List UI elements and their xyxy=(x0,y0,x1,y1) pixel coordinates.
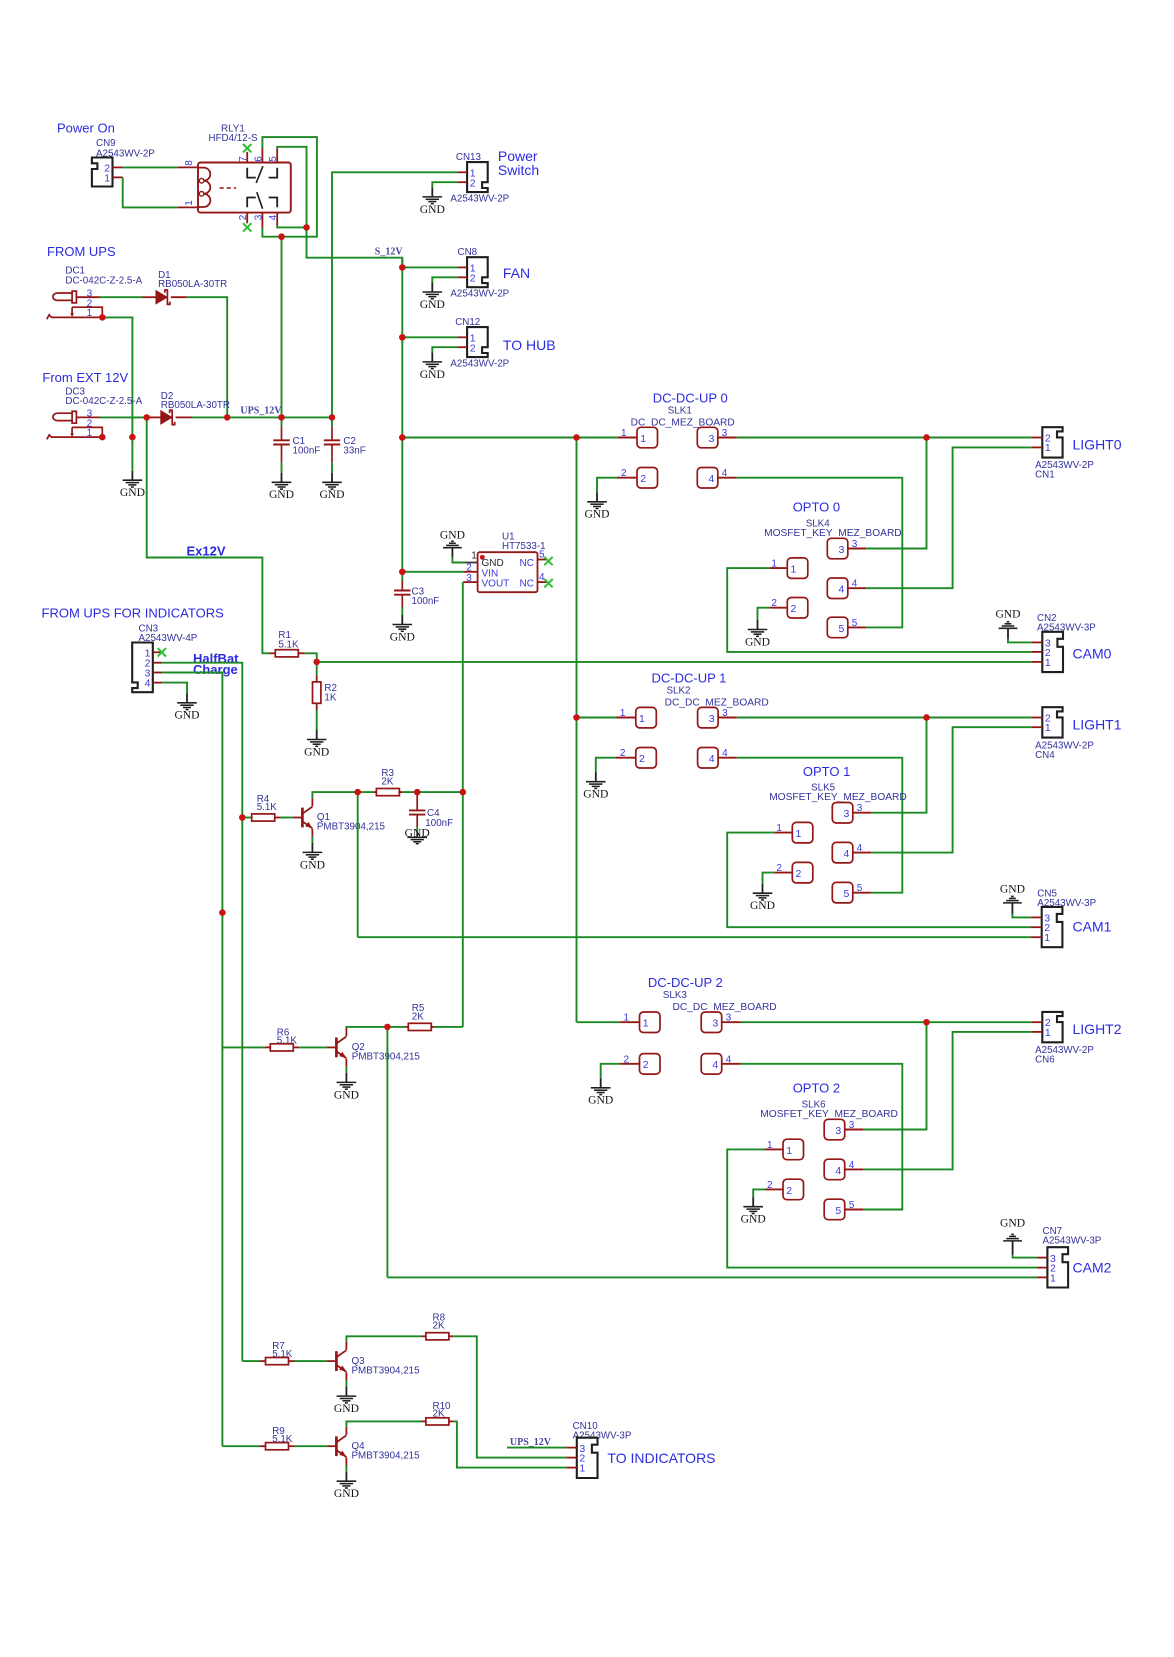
pin CN3.3 xyxy=(153,672,162,674)
svg-text:5: 5 xyxy=(268,156,279,162)
svg-text:5: 5 xyxy=(852,618,858,629)
pin DC3.3 xyxy=(76,416,99,418)
pad SLK2.4 xyxy=(698,748,719,769)
wire OPTO1.3 up xyxy=(871,718,926,813)
svg-text:UPS_12V: UPS_12V xyxy=(510,1437,552,1448)
wire SLK2.4 to OPTO1.5 xyxy=(737,758,902,893)
svg-text:DC_DC_MEZ_BOARD: DC_DC_MEZ_BOARD xyxy=(665,697,769,708)
svg-text:CAM2: CAM2 xyxy=(1073,1260,1112,1276)
svg-text:NC: NC xyxy=(520,558,534,569)
svg-text:1: 1 xyxy=(640,433,646,445)
pin U1.1 xyxy=(465,562,478,564)
transistor Q4 xyxy=(327,1445,336,1447)
svg-text:1: 1 xyxy=(1044,932,1050,944)
svg-text:FROM UPS: FROM UPS xyxy=(47,244,116,259)
wire RLY1.5 loop to RLY1.4 xyxy=(277,147,402,268)
ground CN3 xyxy=(177,693,197,709)
wire R9 to Q4 base xyxy=(295,1445,327,1447)
svg-text:GND: GND xyxy=(584,508,609,521)
wire CN8.2 to GND xyxy=(432,277,457,282)
wire rail down to blocks 1+2 xyxy=(576,438,578,1023)
junction rail block1 xyxy=(573,714,579,720)
svg-text:GND: GND xyxy=(269,488,294,501)
junction rail split down xyxy=(573,434,579,440)
ground Q1 xyxy=(303,843,323,859)
wire CN12.2 to GND xyxy=(432,347,457,352)
svg-text:6: 6 xyxy=(253,156,264,162)
resistor R10 xyxy=(422,1420,426,1422)
wire CN9.2 to RLY1.8 xyxy=(123,166,178,168)
wire rail to SLK1.1 xyxy=(577,437,619,439)
svg-text:2: 2 xyxy=(470,273,476,285)
svg-text:CN4: CN4 xyxy=(1035,750,1055,761)
svg-text:1: 1 xyxy=(471,550,477,561)
svg-text:5: 5 xyxy=(849,1200,855,1211)
svg-text:A2543WV-2P: A2543WV-2P xyxy=(450,289,509,300)
relay pin 2 xyxy=(246,213,248,224)
resistor R1 xyxy=(269,652,275,654)
junction R4 tap xyxy=(239,814,245,820)
wire OPTO0.1 to CAM0.2 xyxy=(727,568,1032,652)
wire OPTO0.2 to GND xyxy=(758,608,770,620)
wire Q3 emitter down xyxy=(345,1380,347,1386)
connector CN13 xyxy=(467,162,488,192)
pad OPTO0.4 xyxy=(827,578,848,599)
svg-text:2: 2 xyxy=(620,748,626,759)
svg-text:4: 4 xyxy=(722,748,728,759)
svg-text:FROM UPS FOR INDICATORS: FROM UPS FOR INDICATORS xyxy=(42,606,225,621)
svg-text:4: 4 xyxy=(722,468,728,479)
svg-text:OPTO 1: OPTO 1 xyxy=(803,764,850,779)
wire R1 to R2 node xyxy=(305,653,317,675)
svg-text:1: 1 xyxy=(104,172,110,184)
ground SLK1.2 xyxy=(587,492,607,508)
wire OPTO2.1 to CAM2.2 xyxy=(727,1149,1037,1267)
svg-text:1: 1 xyxy=(1045,442,1051,454)
svg-text:1: 1 xyxy=(1045,657,1051,669)
junction LIGHT1 node xyxy=(923,714,929,720)
ground Q4 xyxy=(337,1472,357,1488)
capacitor C2 xyxy=(331,417,333,426)
wire OPTO0.4 to LIGHT0.1 xyxy=(866,447,1032,588)
connector CN9 xyxy=(92,158,113,187)
pad OPTO1.3 xyxy=(832,803,853,824)
wire D1 to UPS_12V xyxy=(187,297,228,417)
no-connect X CN3.1 xyxy=(158,648,166,656)
svg-text:GND: GND xyxy=(420,203,445,216)
svg-text:GND: GND xyxy=(174,709,199,722)
no-connect X pin7 xyxy=(243,144,251,152)
wire GND to CAM2.3 xyxy=(1013,1255,1037,1258)
svg-text:GND: GND xyxy=(588,1094,613,1107)
svg-text:2: 2 xyxy=(776,863,782,874)
junction Ex12V tap xyxy=(144,414,150,420)
svg-text:TO INDICATORS: TO INDICATORS xyxy=(607,1450,715,1466)
connector CAM1 xyxy=(1042,907,1063,947)
resistor R7 xyxy=(242,1360,259,1362)
svg-text:5: 5 xyxy=(844,888,850,900)
pin CN9.2 xyxy=(113,166,123,168)
svg-text:PMBT3904,215: PMBT3904,215 xyxy=(317,822,386,833)
ground C4 xyxy=(407,833,427,844)
wire CN3.2 HalfBat net xyxy=(162,663,242,1361)
junction DC1 pin1/pin2 xyxy=(99,314,105,320)
no-connect X U1.5 xyxy=(544,557,552,565)
pin CAM0.1 xyxy=(1032,661,1043,663)
wire CN9.1 to RLY1.1 xyxy=(123,177,178,207)
svg-text:2: 2 xyxy=(786,1185,792,1197)
wire contacts common to UPS_12V xyxy=(281,237,283,418)
junction VIN xyxy=(399,569,405,575)
pad SLK2.2 xyxy=(616,757,636,759)
pin CN3.1 xyxy=(153,651,162,653)
wire DC1.1 to GND rail xyxy=(102,317,132,470)
svg-text:5: 5 xyxy=(857,883,863,894)
svg-text:8: 8 xyxy=(184,160,195,166)
wire OPTO2.4 to LIGHT2.1 xyxy=(863,1032,1032,1170)
svg-text:GND: GND xyxy=(120,486,145,499)
pin CAM0.2 xyxy=(1032,651,1043,653)
connector CN8 xyxy=(467,257,488,287)
svg-text:CAM0: CAM0 xyxy=(1073,645,1112,661)
svg-text:100nF: 100nF xyxy=(412,596,440,607)
ground CN13 xyxy=(423,187,443,203)
wire S_12V rail xyxy=(401,258,403,572)
svg-text:GND: GND xyxy=(745,635,770,648)
resistor R6 xyxy=(222,1046,264,1048)
svg-text:CAM1: CAM1 xyxy=(1073,919,1112,935)
junction Q1 collector node xyxy=(355,789,361,795)
svg-text:TO HUB: TO HUB xyxy=(503,337,556,353)
diode D2 xyxy=(147,416,161,418)
svg-text:GND: GND xyxy=(334,1402,359,1415)
svg-text:2: 2 xyxy=(238,214,249,220)
svg-text:1: 1 xyxy=(1045,1027,1051,1039)
pin CN9.1 xyxy=(113,176,123,178)
svg-text:Ex12V: Ex12V xyxy=(187,543,226,558)
ground SLK2.2 xyxy=(586,772,606,788)
svg-text:LIGHT2: LIGHT2 xyxy=(1073,1021,1122,1037)
junction LIGHT2 node xyxy=(923,1019,929,1025)
pin LIGHT2.1 xyxy=(1032,1031,1043,1033)
svg-text:2: 2 xyxy=(640,473,646,485)
wire Q1 emitter down xyxy=(311,837,313,843)
svg-text:S_12V: S_12V xyxy=(375,247,404,258)
pad SLK1.2 xyxy=(617,477,637,479)
wire CN13.2 to GND xyxy=(432,182,457,187)
junction C1 xyxy=(278,414,284,420)
svg-text:4: 4 xyxy=(852,579,858,590)
svg-text:1: 1 xyxy=(786,1145,792,1157)
wire UPS_12V bus xyxy=(192,416,333,418)
ground DC jacks xyxy=(123,471,143,487)
junction C4 tap xyxy=(414,789,420,795)
wire Q1 node to CAM1 pin1 xyxy=(357,792,359,937)
wire node to CAM0 pin1 xyxy=(317,661,1032,663)
svg-text:CN6: CN6 xyxy=(1035,1055,1055,1066)
pin U1.3 VOUT xyxy=(463,581,478,583)
wire GND to U1.1 xyxy=(452,557,465,563)
wire rail to SLK3.1 xyxy=(577,1021,621,1023)
svg-text:1: 1 xyxy=(791,564,797,576)
wire GND to CAM1.3 xyxy=(1012,914,1030,918)
junction S_12V FAN xyxy=(399,264,405,270)
svg-text:From EXT 12V: From EXT 12V xyxy=(42,370,128,385)
resistor R8 xyxy=(422,1335,426,1337)
pad OPTO0.2 xyxy=(787,598,808,619)
wire SLK1.2 to GND xyxy=(597,478,617,493)
svg-text:3: 3 xyxy=(849,1120,855,1131)
svg-text:3: 3 xyxy=(709,433,715,445)
wire R3 to VOUT rail xyxy=(403,791,463,793)
wire R8 to CN10.2 xyxy=(453,1336,566,1457)
svg-text:2: 2 xyxy=(643,1059,649,1071)
transistor Q1 xyxy=(293,817,302,819)
svg-text:4: 4 xyxy=(709,473,715,485)
relay pin 6 xyxy=(261,148,263,163)
svg-text:1: 1 xyxy=(639,713,645,725)
svg-text:5.1K: 5.1K xyxy=(278,639,299,650)
svg-text:3: 3 xyxy=(844,808,850,820)
svg-text:PMBT3904,215: PMBT3904,215 xyxy=(352,1052,421,1063)
pin CAM2.3 xyxy=(1037,1257,1048,1259)
svg-text:DC-DC-UP 2: DC-DC-UP 2 xyxy=(648,975,723,990)
pad OPTO1.5 xyxy=(832,882,853,903)
ground C2 xyxy=(322,473,342,489)
wire OPTO0.3 up xyxy=(866,438,926,549)
svg-text:MOSFET_KEY_MEZ_BOARD: MOSFET_KEY_MEZ_BOARD xyxy=(769,792,907,803)
wire Q4 collector up xyxy=(346,1421,421,1426)
pad OPTO2.5 xyxy=(824,1199,845,1220)
U1 pin1 dot xyxy=(480,555,485,560)
wire OPTO1.1 to CAM1.2 xyxy=(727,833,1030,928)
svg-text:3: 3 xyxy=(839,544,845,556)
pad SLK1.1 xyxy=(618,437,637,439)
svg-text:GND: GND xyxy=(741,1213,766,1226)
pad OPTO1.4 xyxy=(832,842,853,863)
jack DC3 xyxy=(53,413,73,420)
wire RLY1.6 loop to RLY1.3 xyxy=(262,137,317,237)
svg-text:2: 2 xyxy=(621,468,627,479)
svg-text:OPTO 2: OPTO 2 xyxy=(793,1081,840,1096)
svg-text:4: 4 xyxy=(145,678,151,690)
wire VOUT rail xyxy=(462,582,464,1027)
wire R2 to GND xyxy=(316,710,318,730)
svg-text:1K: 1K xyxy=(324,693,336,704)
connector CAM2 xyxy=(1047,1247,1068,1287)
wire OPTO2.3 up xyxy=(863,1022,927,1129)
ground above U1 xyxy=(443,541,462,557)
pad SLK3.2 xyxy=(620,1063,639,1065)
svg-text:100nF: 100nF xyxy=(293,446,321,457)
svg-text:5: 5 xyxy=(839,623,845,635)
svg-text:Charge: Charge xyxy=(193,662,238,677)
wire R5 to VOUT rail xyxy=(434,1026,462,1028)
wire Q2 node to CAM2 pin1 xyxy=(386,1027,388,1278)
svg-text:2: 2 xyxy=(767,1180,773,1191)
svg-text:DC-DC-UP 1: DC-DC-UP 1 xyxy=(652,670,727,685)
junction R1/R2 xyxy=(314,659,320,665)
wire GND to CAM0.3 xyxy=(1008,639,1032,643)
wire SLK2.2 to GND xyxy=(596,758,616,773)
wire R10 to CN10.1 xyxy=(453,1421,566,1467)
pad OPTO1.2 xyxy=(792,862,813,883)
svg-text:GND: GND xyxy=(390,630,415,643)
junction CN3.3 net xyxy=(219,909,225,915)
wire DC3.3 to D2 xyxy=(100,416,147,418)
pad SLK1.3 xyxy=(697,427,718,448)
ground CAM0 xyxy=(999,622,1018,639)
pin CAM0.3 xyxy=(1032,641,1043,643)
relay pin 5 xyxy=(276,148,278,162)
junction C2 / CN13 xyxy=(329,414,335,420)
pad OPTO2.2 xyxy=(783,1179,804,1200)
pin CN10.3 xyxy=(566,1447,577,1449)
svg-text:1: 1 xyxy=(771,559,777,570)
svg-text:MOSFET_KEY_MEZ_BOARD: MOSFET_KEY_MEZ_BOARD xyxy=(760,1109,898,1120)
svg-text:4: 4 xyxy=(709,753,715,765)
svg-text:DC-042C-Z-2.5-A: DC-042C-Z-2.5-A xyxy=(65,275,142,286)
svg-text:GND: GND xyxy=(420,298,445,311)
wire R4 to Q1 base xyxy=(281,817,293,819)
pin CN13.2 xyxy=(457,181,467,183)
jack DC1 switch pin2 xyxy=(72,307,102,317)
pad OPTO0.5 xyxy=(827,617,848,638)
pad SLK3.3 xyxy=(701,1012,722,1033)
svg-text:RB050LA-30TR: RB050LA-30TR xyxy=(158,279,227,290)
wire OPTO2.2 to GND xyxy=(753,1189,765,1197)
svg-text:33nF: 33nF xyxy=(343,446,365,457)
svg-text:Power On: Power On xyxy=(57,121,115,136)
ground CN12 xyxy=(423,352,443,368)
svg-text:1: 1 xyxy=(621,428,627,439)
svg-text:1: 1 xyxy=(1045,722,1051,734)
pad SLK3.4 xyxy=(701,1054,722,1075)
wire S_12V to CN12.1 xyxy=(402,336,457,338)
svg-text:2: 2 xyxy=(796,868,802,880)
svg-text:3: 3 xyxy=(712,1018,718,1030)
pin LIGHT1.1 xyxy=(1032,726,1043,728)
svg-text:GND: GND xyxy=(1000,883,1025,896)
capacitor C3 xyxy=(401,572,403,581)
wire R7 to Q3 base xyxy=(295,1360,327,1362)
svg-text:GND: GND xyxy=(1000,1217,1025,1230)
svg-text:FAN: FAN xyxy=(503,265,530,281)
pad SLK2.3 xyxy=(698,707,719,728)
pin CN3.2 xyxy=(153,662,162,664)
pin CAM2.2 xyxy=(1037,1267,1048,1269)
jack DC3 switch pin2 xyxy=(72,427,102,437)
pad OPTO1.1 xyxy=(792,822,813,843)
svg-text:4: 4 xyxy=(849,1160,855,1171)
junction DC3 pin1/pin2 xyxy=(99,434,105,440)
svg-text:3: 3 xyxy=(726,1013,732,1024)
svg-text:A2543WV-2P: A2543WV-2P xyxy=(450,194,509,205)
relay pin 4 xyxy=(276,213,278,226)
pin CN12.1 xyxy=(457,336,467,338)
svg-text:3: 3 xyxy=(857,803,863,814)
relay RLY1 dashed link xyxy=(220,187,237,189)
svg-text:UPS_12V: UPS_12V xyxy=(240,405,282,416)
relay pin 8 lead xyxy=(178,166,198,168)
relay pin 1 lead xyxy=(178,206,198,208)
ground SLK3.2 xyxy=(591,1078,611,1094)
ground OPTO1 xyxy=(753,884,773,900)
wire S_12V to VIN xyxy=(402,571,463,573)
pad OPTO0.3 xyxy=(827,538,848,559)
ground OPTO0 xyxy=(748,620,768,636)
relay RLY1 coil xyxy=(198,168,210,207)
svg-text:DC_DC_MEZ_BOARD: DC_DC_MEZ_BOARD xyxy=(673,1002,777,1013)
svg-text:SLK1: SLK1 xyxy=(668,406,692,417)
svg-text:1: 1 xyxy=(796,828,802,840)
svg-text:LIGHT0: LIGHT0 xyxy=(1073,436,1122,452)
svg-text:HFD4/12-S: HFD4/12-S xyxy=(209,133,258,144)
junction relay 4/5 xyxy=(303,224,309,230)
pin CN8.2 xyxy=(457,276,467,278)
svg-text:1: 1 xyxy=(620,708,626,719)
svg-text:CN9: CN9 xyxy=(96,138,116,149)
wire RLY1.4 joins xyxy=(277,226,306,228)
svg-text:4: 4 xyxy=(839,584,845,596)
svg-text:A2543WV-2P: A2543WV-2P xyxy=(450,359,509,370)
svg-text:GND: GND xyxy=(750,899,775,912)
svg-text:2: 2 xyxy=(470,177,476,189)
pad SLK3.1 xyxy=(620,1021,639,1023)
resistor R2 xyxy=(316,675,318,682)
pad SLK1.4 xyxy=(697,468,718,489)
svg-text:2K: 2K xyxy=(412,1012,424,1023)
svg-text:1: 1 xyxy=(643,1018,649,1030)
wire Q1 collector up xyxy=(312,792,373,798)
pin CN8.1 xyxy=(457,266,467,268)
wire Q2 emitter down xyxy=(345,1067,347,1073)
connector CN12 xyxy=(467,327,488,357)
transistor Q2 xyxy=(327,1046,336,1048)
svg-text:1: 1 xyxy=(624,1013,630,1024)
svg-text:3: 3 xyxy=(709,713,715,725)
wire Q3 collector up xyxy=(346,1336,421,1341)
pin CN3.4 xyxy=(153,682,162,684)
wire S_12V to CN8.1 xyxy=(402,266,457,268)
junction D1/D2 xyxy=(224,414,230,420)
svg-text:4: 4 xyxy=(835,1165,841,1177)
resistor R4 xyxy=(242,817,251,819)
pin LIGHT0.1 xyxy=(1032,446,1043,448)
svg-text:2K: 2K xyxy=(381,776,393,787)
transistor Q3 xyxy=(327,1360,336,1362)
wire 12V rail to DC-DC blocks xyxy=(402,437,618,439)
svg-text:DC-DC-UP 0: DC-DC-UP 0 xyxy=(653,391,728,406)
resistor R5 xyxy=(405,1026,409,1028)
capacitor C1 xyxy=(281,417,283,426)
svg-text:4: 4 xyxy=(726,1054,732,1065)
capacitor C4 xyxy=(416,792,418,810)
wire SLK3.4 to OPTO2.5 xyxy=(741,1064,903,1210)
svg-text:3: 3 xyxy=(722,428,728,439)
svg-text:GND: GND xyxy=(995,608,1020,621)
svg-text:GND: GND xyxy=(420,368,445,381)
svg-text:7: 7 xyxy=(238,156,249,162)
pin LIGHT2.2 xyxy=(1032,1021,1043,1023)
relay RLY1 body xyxy=(198,163,291,213)
junction DC3 pin1 joins xyxy=(129,434,135,440)
junction dots overlay xyxy=(99,224,930,1030)
wire OPTO1.4 to LIGHT1.1 xyxy=(871,727,1032,852)
jack DC1 xyxy=(53,293,73,300)
svg-text:5: 5 xyxy=(835,1205,841,1217)
svg-text:LIGHT1: LIGHT1 xyxy=(1073,716,1122,732)
